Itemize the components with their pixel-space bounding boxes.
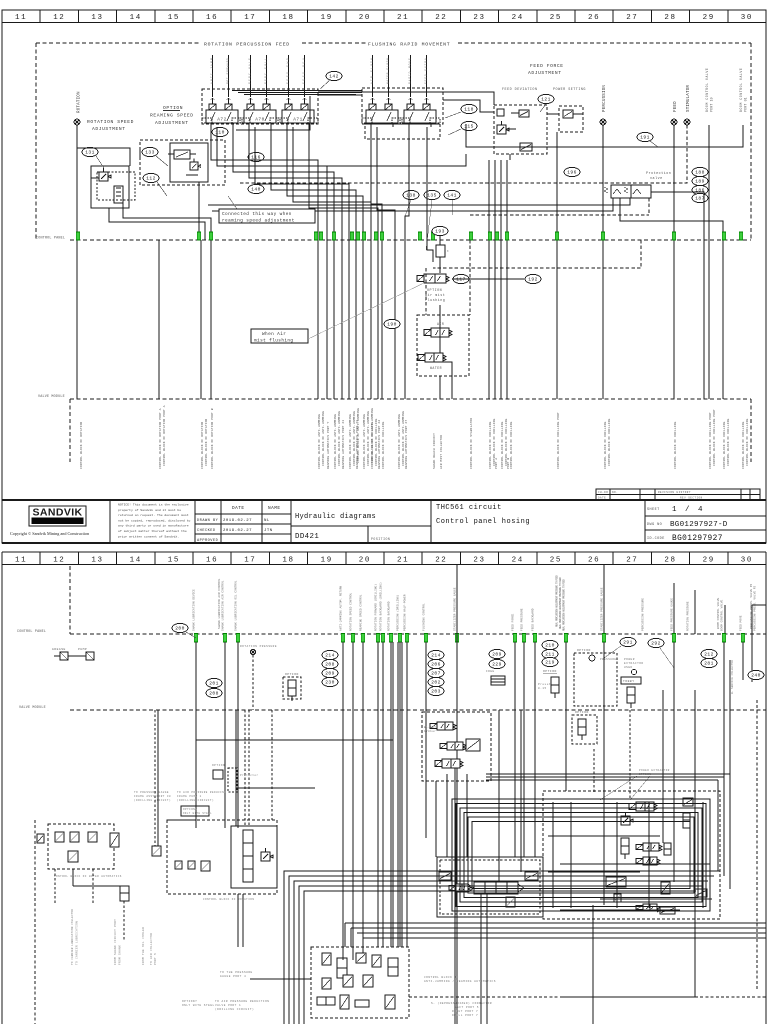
node FEED port (671, 101, 678, 125)
svg-text:any third party or used in man: any third party or used in manufacture (118, 524, 189, 528)
callout 138 (403, 190, 419, 216)
svg-text:(DRILLING CIRCUIT): (DRILLING CIRCUIT) (177, 798, 214, 802)
valve module port labels (rotated) (80, 405, 749, 469)
svg-text:CONTROL BLOCK OF ANTI-JAMMING: CONTROL BLOCK OF ANTI-JAMMING (363, 414, 366, 469)
water valve 2 (70, 832, 79, 842)
svg-text:229: 229 (492, 662, 501, 668)
svg-text:281: 281 (704, 661, 713, 667)
adjuster component (114, 186, 123, 203)
anti-jamming block (dashed) (311, 947, 409, 1018)
svg-text:28: 28 (664, 557, 676, 565)
svg-text:11: 11 (15, 14, 27, 22)
callout 141 (444, 190, 460, 215)
pressure reducing valve (rotation speed) (91, 168, 111, 181)
callout 208a (206, 688, 222, 697)
svg-text:17: 17 (244, 557, 256, 565)
callout 196 (564, 167, 580, 176)
svg-text:ADJUSTMENT: ADJUSTMENT (92, 126, 126, 132)
drilling valve c (636, 843, 662, 851)
labels above bank2 (rotated) (371, 58, 428, 84)
labels above bank1 (rotated) (211, 58, 306, 84)
svg-text:BOOM CONTROL VALVE: BOOM CONTROL VALVE (705, 68, 709, 112)
pump control valve 1 (430, 722, 456, 730)
svg-text:A71: A71 (293, 118, 302, 123)
option percussion pressure switch (572, 711, 597, 744)
svg-text:PERCUSSION PRESSURE: PERCUSSION PRESSURE (642, 598, 645, 631)
svg-text:AIR MIST COLLECTOR: AIR MIST COLLECTOR (440, 435, 443, 469)
svg-text:CONTROL BLOCK OF ROTATION PORT: CONTROL BLOCK OF ROTATION PORT A (159, 408, 162, 469)
svg-text:FEED FORCE: FEED FORCE (530, 63, 564, 69)
pressure compensator valve (reaming) (168, 150, 196, 159)
rotation relief valve (261, 848, 273, 861)
svg-text:22: 22 (435, 14, 447, 22)
svg-text:PUMP: PUMP (78, 648, 87, 651)
drilling valve e (606, 877, 626, 887)
valve bank 1 enclosure (dashed) (202, 89, 318, 124)
svg-text:(DRILLING CIRCUIT): (DRILLING CIRCUIT) (215, 1007, 254, 1011)
svg-text:POWER EXTRACTOR: POWER EXTRACTOR (639, 769, 670, 772)
svg-text:24: 24 (512, 557, 524, 565)
note connected this way when reaming speed adjustment (219, 196, 315, 224)
svg-text:PERCUSSION: PERCUSSION (603, 85, 607, 112)
feed deviation pressure valve (497, 121, 516, 134)
svg-text:207: 207 (431, 671, 440, 677)
wire feed block down (481, 894, 487, 1024)
svg-text:A70: A70 (255, 118, 264, 123)
svg-text:REVISION HISTORY: REVISION HISTORY (658, 491, 691, 494)
svg-text:CONTROL PANEL: CONTROL PANEL (17, 630, 46, 634)
drilling comp f (661, 882, 670, 894)
svg-text:TO AIR PRESSURE REDUCTION: TO AIR PRESSURE REDUCTION (215, 1000, 269, 1003)
svg-text:NL: NL (264, 519, 270, 523)
svg-text:CONTROL BLOCK OF ROTATION: CONTROL BLOCK OF ROTATION (80, 422, 83, 470)
pump control valve 2 (440, 742, 466, 750)
option steel box note (181, 806, 212, 816)
svg-text:STABILIZER PRESSURE GAUGE: STABILIZER PRESSURE GAUGE (454, 587, 457, 631)
svg-text:14: 14 (130, 14, 142, 22)
svg-text:CONTROL BLOCK OF DRILLING: CONTROL BLOCK OF DRILLING (382, 422, 385, 470)
svg-text:RIGHT PORT 7: RIGHT PORT 7 (452, 1010, 478, 1013)
feed main spool valve (468, 882, 524, 894)
callout 229 (489, 659, 505, 668)
drilling control block (dashed) (543, 791, 720, 919)
air valve (424, 322, 452, 337)
svg-text:FEED MOVE: FEED MOVE (740, 615, 743, 631)
svg-text:CONTROL BLOCK OF WATER AUTOMAT: CONTROL BLOCK OF WATER AUTOMATICS (54, 875, 122, 878)
feed deviation block (dashed) (494, 105, 547, 154)
page 1 frame border (2, 10, 766, 543)
water inlet comp (37, 834, 44, 843)
svg-text:PERCUSSION HALF-POWER: PERCUSSION HALF-POWER (404, 594, 407, 631)
aj valve 6 (322, 978, 331, 989)
control block of rotation (dashed) (167, 820, 277, 901)
svg-text:TO THE PRESSURE: TO THE PRESSURE (220, 971, 253, 974)
svg-text:CONTROL BLOCK OF ANTI-JAMMING: CONTROL BLOCK OF ANTI-JAMMING (349, 414, 352, 469)
note to pressure gauge (134, 791, 171, 802)
svg-text:Protector: Protector (240, 774, 259, 777)
wire boom port 01 down (658, 125, 743, 147)
svg-text:CONTROL BLOCK OF ROTATION: CONTROL BLOCK OF ROTATION (203, 898, 254, 901)
svg-text:18: 18 (282, 557, 294, 565)
air/water valve block (dashed) (417, 315, 469, 376)
svg-text:30: 30 (741, 14, 753, 22)
svg-text:27: 27 (626, 14, 638, 22)
callout 121 (538, 94, 554, 112)
rotation spool valve (243, 830, 253, 882)
svg-text:(DRILLING CIRCUIT): (DRILLING CIRCUIT) (134, 798, 171, 802)
svg-text:GREASE: GREASE (52, 648, 66, 651)
svg-text:138: 138 (406, 193, 415, 199)
shank lubrication pump symbols (52, 648, 94, 660)
callout 188 (692, 167, 708, 176)
sheet / dwg no cell (645, 506, 766, 543)
svg-text:16: 16 (206, 14, 218, 22)
callout stack 214/208/209/230 (322, 650, 338, 686)
pump control valve 4 (466, 739, 480, 751)
svg-text:AIR FLUSH: AIR FLUSH (371, 58, 374, 84)
svg-text:BOOM CONTROL VALVE: BOOM CONTROL VALVE (739, 68, 743, 112)
drilling accumulator 2 (664, 843, 671, 855)
svg-text:CONTROL BLOCK OF DRILLING: CONTROL BLOCK OF DRILLING (727, 419, 730, 467)
Sandvik logo (29, 506, 86, 526)
aj valve 4 (372, 955, 381, 967)
wire drilling block internal horizontals (548, 802, 712, 910)
node ROTATION port (74, 91, 82, 125)
svg-text:131: 131 (85, 150, 94, 156)
svg-text:CONTROL BLOCK OF ANTI-JAMMING: CONTROL BLOCK OF ANTI-JAMMING (322, 411, 325, 466)
svg-text:ROTATION BACKWARD (DRILLING): ROTATION BACKWARD (DRILLING) (379, 582, 383, 631)
svg-text:27: 27 (626, 557, 638, 565)
drilling comp g (695, 889, 707, 897)
water valve 1 (55, 832, 64, 842)
title block frame (2, 500, 766, 543)
aj valve 12 (385, 995, 395, 1009)
svg-text:ANTI-JAMMING / REAMING AUTOMAT: ANTI-JAMMING / REAMING AUTOMATICS (424, 979, 496, 983)
svg-text:112: 112 (146, 176, 155, 182)
svg-text:210: 210 (545, 643, 554, 649)
rotation comp 2 (175, 861, 182, 869)
legal notice text (118, 503, 191, 539)
svg-text:20: 20 (359, 14, 371, 22)
svg-text:NOTICE! This document is the e: NOTICE! This document is the exclusive (118, 503, 189, 507)
svg-text:13: 13 (91, 14, 103, 22)
svg-text:CHECKED: CHECKED (197, 529, 216, 533)
revision table (596, 489, 760, 500)
aj valve 1 (322, 953, 331, 965)
svg-text:PORT A: PORT A (495, 458, 498, 469)
svg-text:190: 190 (387, 322, 396, 328)
svg-text:DRILL PORT 7: DRILL PORT 7 (452, 1014, 478, 1017)
option protector note (212, 764, 259, 792)
valve bank 2 enclosure (dashed) (362, 88, 443, 139)
svg-text:118: 118 (464, 107, 473, 113)
valve module boundary (dashed) (70, 399, 751, 462)
pump control block (dashed) (422, 712, 491, 781)
svg-text:DATE: DATE (232, 506, 245, 511)
control panel boundary (dashed) (36, 43, 751, 240)
svg-text:ONLY WITH STEEL: ONLY WITH STEEL (182, 1004, 215, 1007)
page2 right dashed service line (756, 700, 758, 990)
svg-text:OPTION: OPTION (639, 773, 651, 776)
label OPTION REAMING SPEED ADJUSTMENT (150, 105, 194, 126)
svg-text:CONTROL BLOCK OF STABILATOR: CONTROL BLOCK OF STABILATOR (470, 418, 473, 469)
callout 135 (424, 190, 440, 250)
svg-text:OPTION?: OPTION? (182, 1000, 197, 1003)
svg-text:15: 15 (168, 14, 180, 22)
svg-text:CONTROL BLOCK OF DRILLING: CONTROL BLOCK OF DRILLING (723, 422, 726, 470)
svg-text:TO AIR PRESSURE REDUCING: TO AIR PRESSURE REDUCING (177, 791, 226, 794)
page2 misc connection wires (167, 820, 243, 947)
svg-text:ROT FORWARD: ROT FORWARD (227, 58, 230, 84)
svg-text:21: 21 (397, 557, 409, 565)
svg-text:2019-02-27: 2019-02-27 (223, 529, 252, 533)
svg-text:201: 201 (209, 681, 218, 687)
svg-text:CONTROL BLOCK OF DRILLING: CONTROL BLOCK OF DRILLING (604, 422, 607, 470)
anti-jamming block label (424, 976, 496, 983)
aj valve 3 (356, 953, 366, 963)
svg-text:211: 211 (545, 652, 554, 658)
wire to air mist valve (439, 257, 441, 273)
drilling comp j (660, 907, 675, 914)
power extractor used group (621, 658, 644, 708)
svg-text:187: 187 (695, 196, 704, 202)
svg-text:ROTATION SPEED: ROTATION SPEED (87, 119, 134, 125)
callout stack 210/211/219 (542, 640, 558, 666)
svg-text:DATE: DATE (598, 497, 606, 500)
svg-text:SANDVIK: SANDVIK (32, 507, 82, 519)
wire rotation port down (76, 125, 78, 399)
wires rotation block feeds (155, 710, 272, 846)
document title cell (291, 513, 431, 543)
svg-text:28: 28 (664, 14, 676, 22)
callout 186 (692, 185, 708, 194)
wires bank2 pilot lines up (373, 55, 427, 97)
wire harness bank1 to bundle (211, 127, 378, 399)
svg-text:212: 212 (704, 652, 713, 658)
drilling accumulator (683, 813, 690, 828)
svg-text:LEFT PORT 5: LEFT PORT 5 (455, 1006, 479, 1009)
svg-text:29: 29 (703, 557, 715, 565)
svg-text:DD421: DD421 (295, 533, 319, 541)
wire verticals lower page1 (159, 240, 426, 399)
feed deviation valve 2 (512, 143, 540, 151)
callout 115 (448, 121, 477, 135)
svg-text:PERCUSSION PRESS. VALVE P2: PERCUSSION PRESS. VALVE P2 (754, 585, 757, 631)
svg-text:REAMING AUTOMATICS PORT Y: REAMING AUTOMATICS PORT Y (327, 422, 330, 470)
wire bus above bank1 (232, 91, 362, 95)
callout 193 (432, 226, 448, 245)
svg-text:SHANK REACH CIRCUIT: SHANK REACH CIRCUIT (433, 433, 436, 469)
label OPTION Air mist flushing (425, 289, 445, 303)
svg-text:20: 20 (359, 557, 371, 565)
aj valve 9 (317, 997, 335, 1005)
svg-text:CONTROL BLOCK OF ROTATION PORT: CONTROL BLOCK OF ROTATION PORT B (211, 408, 214, 469)
svg-text:121: 121 (541, 97, 550, 103)
wire dashed stimulator branch (433, 240, 641, 315)
svg-text:OPTION?: OPTION? (183, 808, 197, 811)
svg-text:19: 19 (321, 14, 333, 22)
wires dashed drops left blocks (55, 869, 124, 940)
svg-text:W. SERVICE COLLECTOR: W. SERVICE COLLECTOR (731, 660, 734, 694)
svg-text:CONTROL BLOCK OF ANTI-JAMMING: CONTROL BLOCK OF ANTI-JAMMING (334, 414, 337, 469)
wire left block connections (77, 148, 211, 240)
svg-text:NO.: NO. (612, 491, 618, 494)
callout 291 (604, 637, 636, 658)
svg-text:REAMING SPEED CONTROL: REAMING SPEED CONTROL (360, 594, 363, 631)
svg-text:OPTION: OPTION (163, 105, 183, 111)
accumulator left (120, 886, 129, 901)
feed comp 2 (525, 872, 538, 880)
svg-text:ANTI JAMM: ANTI JAMM (211, 58, 214, 84)
svg-text:POWER: POWER (624, 658, 635, 661)
feed comp 1 (439, 872, 451, 880)
svg-text:CONTROL BLOCK OF DRILLING: CONTROL BLOCK OF DRILLING (371, 422, 374, 470)
callout stack 214/206/207/202/203 (428, 650, 444, 695)
svg-text:189: 189 (695, 179, 704, 185)
svg-text:returned on request. The docum: returned on request. The document must (118, 513, 189, 517)
rotation comp 4 (201, 861, 210, 871)
drilling comp b (683, 798, 693, 806)
svg-text:188: 188 (695, 170, 704, 176)
svg-text:SHANK LUBRICATION OIL CONTROL: SHANK LUBRICATION OIL CONTROL (235, 580, 238, 631)
note when air mist flushing (251, 283, 424, 344)
svg-text:CONTROL BLOCK OF DRILLING: CONTROL BLOCK OF DRILLING (489, 422, 492, 470)
svg-text:193: 193 (435, 229, 444, 235)
water outlet comp (110, 833, 119, 847)
pump control valve 3 (435, 759, 463, 768)
svg-text:214: 214 (325, 653, 334, 659)
svg-text:ANTI-JAMMING AUTOM. RETURN: ANTI-JAMMING AUTOM. RETURN (340, 585, 343, 631)
svg-text:17: 17 (244, 14, 256, 22)
wire reaming block to right (208, 154, 723, 399)
svg-text:flushing: flushing (425, 298, 445, 303)
page2 bottom horizontals (345, 923, 766, 997)
svg-text:TO CARRIER LUBRICATION: TO CARRIER LUBRICATION (76, 921, 79, 965)
svg-text:200: 200 (175, 626, 184, 632)
power setting block (559, 106, 583, 132)
svg-text:OPTION: OPTION (285, 673, 299, 676)
wire water block down (73, 869, 121, 886)
svg-text:0.15: 0.15 (538, 687, 547, 690)
page2 wires above boundary (457, 565, 766, 682)
svg-text:POWER SETTING: POWER SETTING (553, 88, 586, 92)
page2 right long verticals (593, 642, 730, 1024)
callout 187 (692, 193, 708, 202)
node PERCUSSION port (600, 85, 607, 125)
svg-text:property of Sandvik and it mus: property of Sandvik and it must be (118, 508, 181, 512)
svg-text:REAMING SPEED: REAMING SPEED (150, 113, 194, 119)
svg-text:26: 26 (588, 557, 600, 565)
svg-text:CONTROL BLOCK OF DRILLING: CONTROL BLOCK OF DRILLING (608, 419, 611, 467)
svg-text:FEED REV: FEED REV (303, 58, 306, 84)
rotation block inner frame (231, 826, 277, 888)
wire feed down (673, 125, 675, 399)
svg-text:191: 191 (640, 135, 649, 141)
svg-text:12: 12 (53, 557, 65, 565)
svg-text:CONTROL BLOCK OF DRILLING: CONTROL BLOCK OF DRILLING (742, 422, 745, 470)
svg-text:Protection: Protection (646, 171, 671, 176)
callout 118 (445, 104, 477, 118)
page 1 grid header row (2, 10, 766, 23)
feed pilot valve (449, 884, 471, 892)
wire air mist valve to 192 (452, 278, 524, 280)
svg-text:REAMING AUTOMATICS PORT X4: REAMING AUTOMATICS PORT X4 (378, 420, 381, 469)
callout 200 (172, 623, 196, 638)
aj valve 11 (355, 1000, 369, 1007)
svg-text:REAL PERCUSSION ADJUSTMENT PRE: REAL PERCUSSION ADJUSTMENT PRESSURE TO F… (563, 579, 566, 631)
svg-text:23: 23 (473, 14, 485, 22)
svg-text:FRAME ASSY PORT 30: FRAME ASSY PORT 30 (134, 795, 171, 798)
svg-text:CONTROL BLOCK OF ROTATION: CONTROL BLOCK OF ROTATION (201, 422, 204, 470)
rotation pressure transducer (240, 645, 277, 710)
page2 right wire field verticals (393, 642, 521, 1024)
tank symbol FREE (486, 670, 505, 685)
aj valve 2 (337, 958, 347, 978)
svg-text:CONTROL BLOCK OF ANTI-JAMMING: CONTROL BLOCK OF ANTI-JAMMING (318, 414, 321, 469)
callout 201 (206, 678, 222, 687)
drawing title cell (436, 504, 530, 526)
drilling valve a (629, 802, 657, 811)
svg-text:of subject matter thereof with: of subject matter thereof without the (118, 529, 187, 533)
svg-text:135: 135 (427, 193, 436, 199)
page2 pump block outputs (486, 774, 730, 876)
callout 240 (748, 670, 764, 679)
callout 112 (143, 173, 167, 196)
svg-text:FLUSHING RAPID MOVEMENT: FLUSHING RAPID MOVEMENT (368, 42, 450, 48)
svg-text:FEED: FEED (674, 101, 678, 112)
svg-text:21: 21 (397, 14, 409, 22)
svg-text:CH-DR: CH-DR (598, 491, 608, 494)
svg-text:209: 209 (325, 671, 334, 677)
svg-text:FEED DEVIATION: FEED DEVIATION (502, 88, 538, 92)
svg-text:117: 117 (456, 277, 465, 283)
svg-text:FEED FWD: FEED FWD (287, 58, 290, 84)
svg-text:206: 206 (431, 662, 440, 668)
label FEED FORCE ADJUSTMENT (528, 63, 564, 76)
svg-text:192: 192 (528, 277, 537, 283)
svg-text:196: 196 (567, 170, 576, 176)
svg-text:140: 140 (251, 187, 260, 193)
svg-text:VALVE MODULE: VALVE MODULE (19, 706, 46, 710)
wire percussion down (602, 125, 604, 399)
svg-text:PORT 5: PORT 5 (154, 953, 157, 965)
drilling pressure regulator (621, 812, 633, 825)
svg-text:186: 186 (695, 188, 704, 194)
aj valve 7 (343, 975, 353, 987)
svg-text:16: 16 (206, 557, 218, 565)
callout 131 (82, 147, 104, 168)
svg-text:REAMING AUTOMATICS PORT X7: REAMING AUTOMATICS PORT X7 (405, 420, 408, 469)
svg-text:FROM SHANK: FROM SHANK (119, 945, 122, 965)
svg-text:BOOM CONTROL VALVE: BOOM CONTROL VALVE (717, 597, 720, 629)
wire feed deviation drops (489, 132, 557, 399)
protection valve label (646, 171, 671, 181)
svg-text:RAPID MOVE: RAPID MOVE (409, 58, 412, 84)
svg-text:202: 202 (431, 680, 440, 686)
svg-text:VALVE MODULE: VALVE MODULE (38, 395, 65, 399)
svg-text:REAMING AUTOMATICS PORT X1: REAMING AUTOMATICS PORT X1 (342, 420, 345, 469)
svg-text:133: 133 (145, 150, 154, 156)
w-service collector label (730, 660, 734, 710)
wire feed deviation to power setting (547, 113, 559, 115)
aj valve 10 (340, 995, 349, 1009)
svg-text:29: 29 (703, 14, 715, 22)
callout 192 (525, 274, 541, 283)
svg-text:BG01297927-D: BG01297927-D (670, 521, 728, 529)
svg-text:25: 25 (550, 557, 562, 565)
svg-text:Air mist: Air mist (425, 293, 445, 298)
svg-text:13: 13 (91, 557, 103, 565)
